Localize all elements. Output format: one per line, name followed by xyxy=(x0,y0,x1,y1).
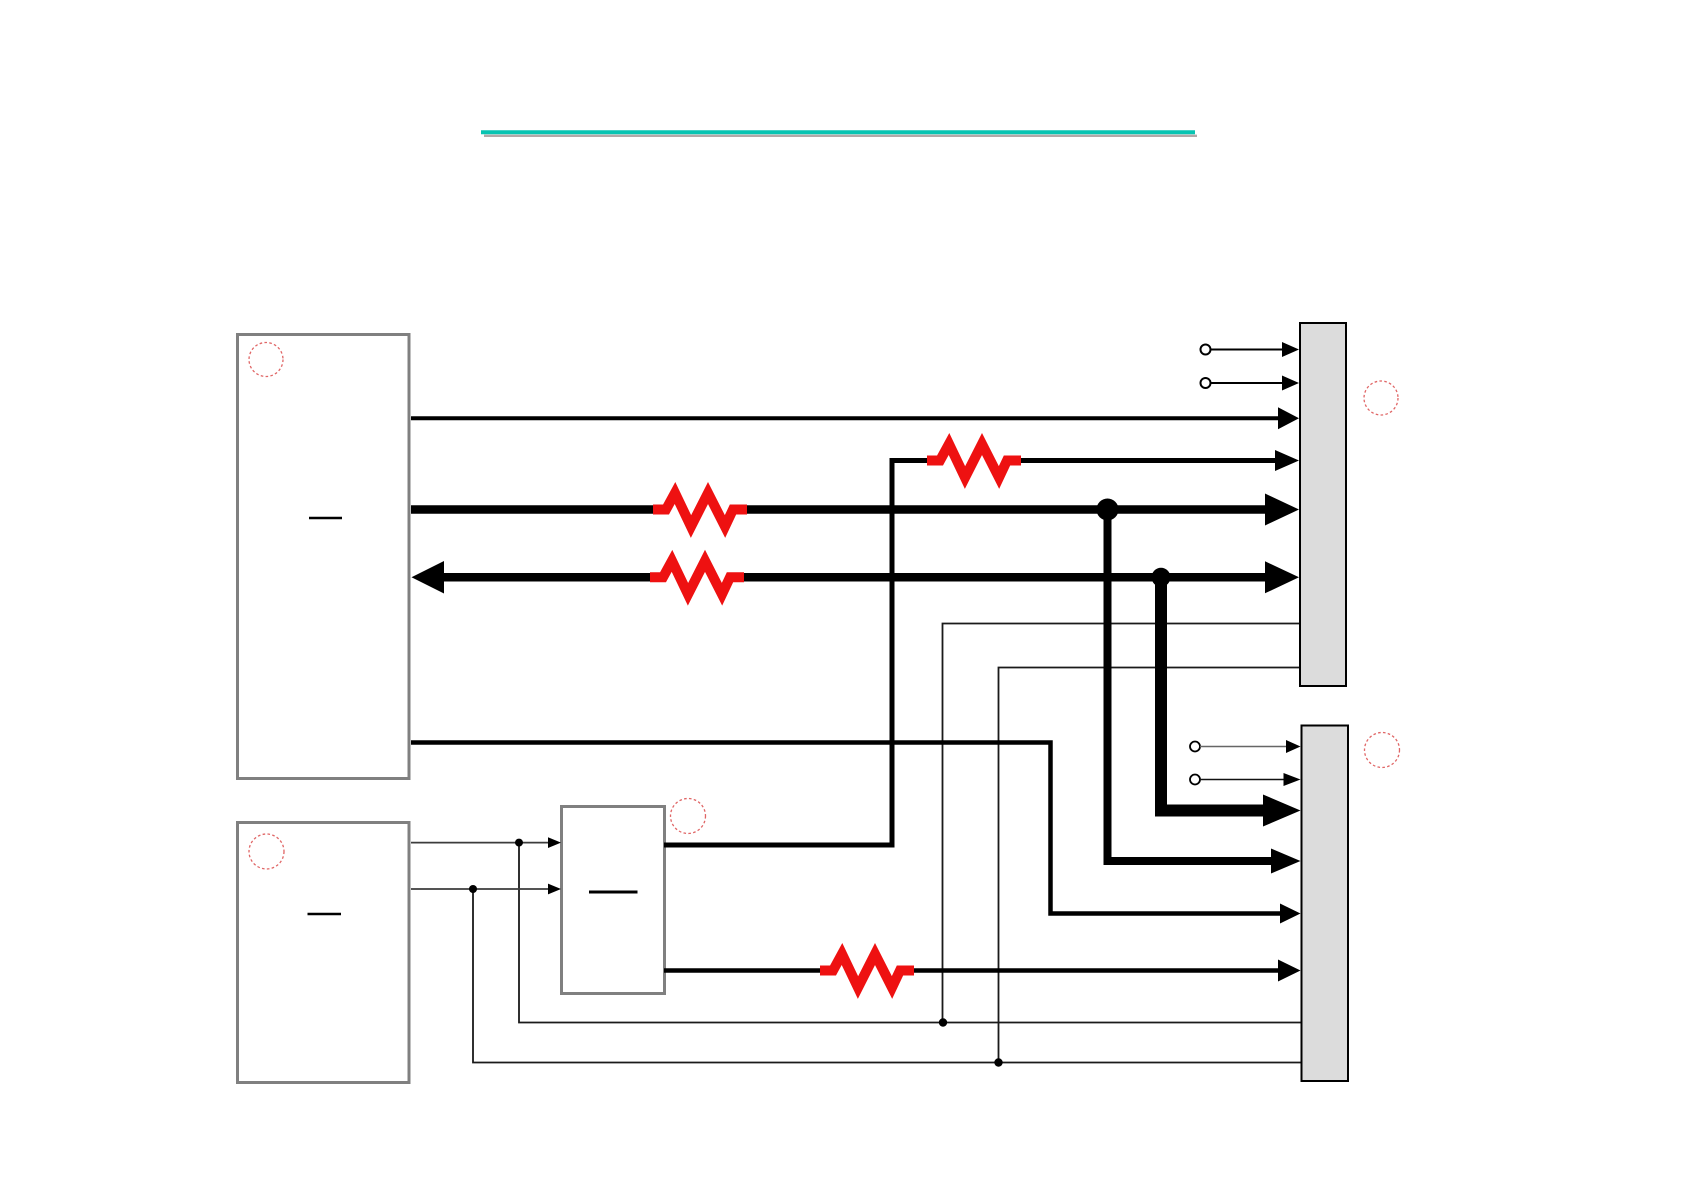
resistor R4 xyxy=(820,954,914,988)
wire O1 U2 output to U3 xyxy=(411,842,549,844)
revision mark circle on U1 xyxy=(249,343,283,377)
block U2 (lower-left box) xyxy=(238,823,410,1083)
wire O2 U2 output to U3 xyxy=(411,888,549,890)
revision mark circle near U3 xyxy=(671,799,706,834)
arrowhead B5 xyxy=(1280,904,1301,924)
arrowhead W3 into U1 (points left) xyxy=(412,561,445,594)
label dash in U2 xyxy=(308,913,342,916)
wire B4 from node N1 down to J2 xyxy=(1108,510,1274,862)
wire T7 riser to J1 xyxy=(943,624,1300,1023)
junction node N3 xyxy=(939,1018,947,1026)
junction node N2 xyxy=(1152,568,1171,587)
pin stub P1 circle xyxy=(1201,345,1211,355)
block U3 (middle small box) xyxy=(562,807,665,994)
connector J2 (lower-right) xyxy=(1302,726,1349,1082)
wire T8 riser to J1 xyxy=(999,668,1300,1063)
wire P3 to J2 xyxy=(1200,746,1288,748)
connector J1 (upper-right) xyxy=(1300,323,1346,686)
arrowhead P1 xyxy=(1282,342,1299,357)
wire B6 U3 bottom output (left segment) xyxy=(664,968,820,973)
junction node N1 xyxy=(1097,499,1119,521)
arrowhead B3 xyxy=(1263,795,1301,827)
wire W3 right segment xyxy=(744,573,1267,582)
revision mark circle on U2 xyxy=(249,834,284,869)
arrowhead W4 xyxy=(1275,450,1299,471)
wire W2 U1 to J1 (left segment) xyxy=(411,505,653,514)
arrowhead B4 xyxy=(1271,849,1301,874)
title underline shadow xyxy=(484,135,1197,137)
junction node N6 xyxy=(469,885,477,893)
wire R1 to J1 xyxy=(1021,458,1277,463)
arrowhead W2 xyxy=(1265,494,1299,526)
wire W4 U3 up to resistor R1 xyxy=(664,461,927,846)
label dash in U1 xyxy=(309,517,342,520)
wire W1 U1 to J1 xyxy=(411,416,1280,420)
arrowhead O2 xyxy=(548,884,561,895)
wire B3 from node N2 down to J2 xyxy=(1161,577,1265,810)
arrowhead O1 xyxy=(548,837,561,848)
arrowhead P4 xyxy=(1284,773,1301,786)
arrowhead B6 xyxy=(1278,960,1301,982)
resistor R2 xyxy=(653,493,747,527)
arrowhead P3 xyxy=(1286,740,1301,753)
pin stub P2 circle xyxy=(1201,378,1211,388)
wire P1 to J1 xyxy=(1211,349,1285,351)
revision mark circle near J1 xyxy=(1364,381,1398,415)
wire T9 net A to J2 xyxy=(519,843,1301,1023)
arrowhead W3 into J1 xyxy=(1265,561,1299,593)
wire W2 right segment xyxy=(747,505,1267,514)
revision mark circle near J2 xyxy=(1365,733,1400,768)
pin stub P3 circle xyxy=(1190,742,1200,752)
resistor R3 xyxy=(650,561,744,595)
title underline (teal rule) xyxy=(481,130,1195,134)
wire P4 to J2 xyxy=(1200,779,1285,781)
wire P2 to J1 xyxy=(1211,382,1285,384)
wire T10 net B to J2 xyxy=(473,889,1301,1063)
wire B6 right segment xyxy=(914,968,1280,973)
block U1 (upper-left large box) xyxy=(238,335,410,779)
junction node N5 xyxy=(515,839,523,847)
wire B5 U1 bottom output to J2 xyxy=(411,743,1282,914)
label dash in U3 xyxy=(589,891,638,894)
arrowhead W1 xyxy=(1278,407,1299,429)
junction node N4 xyxy=(994,1058,1002,1066)
resistor R1 xyxy=(927,444,1021,478)
arrowhead P2 xyxy=(1282,376,1299,391)
wire W3 left segment xyxy=(443,573,650,582)
pin stub P4 circle xyxy=(1190,775,1200,785)
